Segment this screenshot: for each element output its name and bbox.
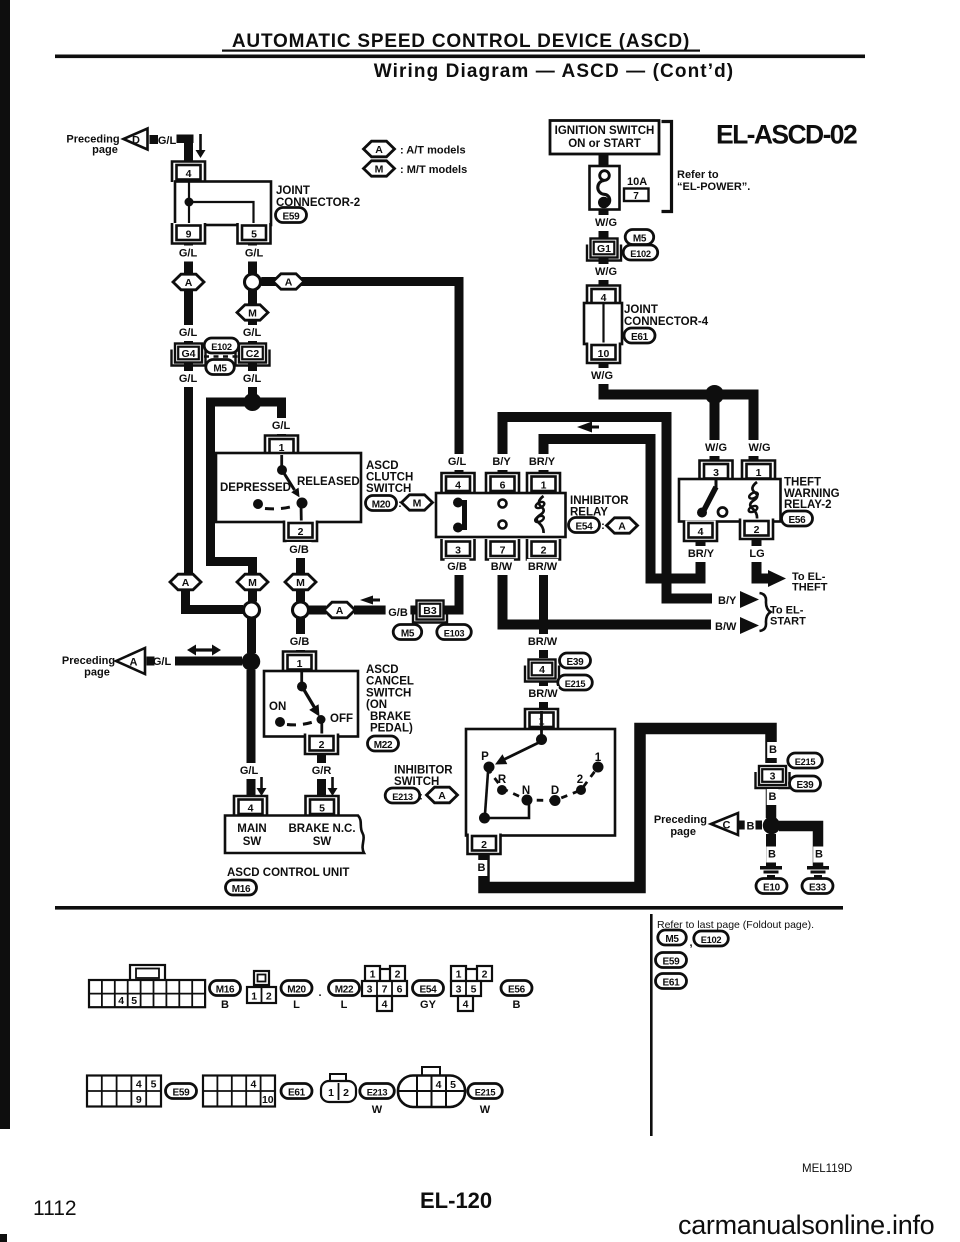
svg-text:JOINT: JOINT xyxy=(624,304,658,316)
svg-text:B: B xyxy=(769,791,777,803)
svg-text:carmanualsonline.info: carmanualsonline.info xyxy=(678,1210,934,1240)
svg-text:E213: E213 xyxy=(367,1088,388,1098)
svg-text:Wiring Diagram — ASCD — (Cont’: Wiring Diagram — ASCD — (Cont’d) xyxy=(374,61,734,82)
svg-text:CONNECTOR-4: CONNECTOR-4 xyxy=(624,316,709,328)
svg-text:E213: E213 xyxy=(392,792,413,802)
svg-text:AUTOMATIC SPEED CONTROL DEVICE: AUTOMATIC SPEED CONTROL DEVICE (ASCD) xyxy=(232,31,690,52)
svg-text:page: page xyxy=(84,667,110,679)
svg-text:: M/T models: : M/T models xyxy=(400,164,467,176)
svg-text:page: page xyxy=(92,144,118,156)
svg-text:4: 4 xyxy=(463,999,469,1011)
svg-text:4: 4 xyxy=(455,480,461,492)
svg-text:M: M xyxy=(296,577,305,589)
svg-text:THEFT: THEFT xyxy=(784,477,821,489)
svg-text:Refer to: Refer to xyxy=(677,169,719,181)
svg-text:D: D xyxy=(551,785,559,797)
svg-text:BR/Y: BR/Y xyxy=(529,456,556,468)
svg-text:M: M xyxy=(375,163,384,175)
svg-text:A: A xyxy=(438,790,446,802)
svg-text:W/G: W/G xyxy=(595,217,617,229)
svg-text:6: 6 xyxy=(500,480,506,492)
svg-text:SW: SW xyxy=(313,836,332,848)
svg-text:W/G: W/G xyxy=(595,266,617,278)
svg-text:M5: M5 xyxy=(401,629,415,640)
svg-text::: : xyxy=(601,520,605,532)
svg-text:E59: E59 xyxy=(663,957,681,968)
svg-text:1: 1 xyxy=(456,969,462,981)
svg-text:E59: E59 xyxy=(283,212,301,223)
svg-text:2: 2 xyxy=(577,774,583,786)
svg-text:JOINT: JOINT xyxy=(276,185,310,197)
svg-text:BRAKE N.C.: BRAKE N.C. xyxy=(288,823,355,835)
svg-text:4: 4 xyxy=(186,168,192,180)
svg-text:G/L: G/L xyxy=(243,373,262,385)
svg-text:G/L: G/L xyxy=(179,373,198,385)
svg-text:RELAY-2: RELAY-2 xyxy=(784,499,832,511)
svg-text:(ON: (ON xyxy=(366,699,387,711)
svg-text:Preceding: Preceding xyxy=(654,814,707,826)
svg-text:PEDAL): PEDAL) xyxy=(370,723,413,735)
svg-text:5: 5 xyxy=(319,803,325,815)
svg-text:E102: E102 xyxy=(701,935,722,945)
svg-text:G/L: G/L xyxy=(448,456,467,468)
svg-text:G/L: G/L xyxy=(245,248,264,260)
svg-text:7: 7 xyxy=(500,545,506,557)
svg-text:E56: E56 xyxy=(789,515,807,526)
svg-text:BR/W: BR/W xyxy=(528,561,558,573)
svg-text:9: 9 xyxy=(136,1094,142,1106)
svg-text:page: page xyxy=(670,826,696,838)
svg-text:5: 5 xyxy=(471,984,477,996)
svg-text:G4: G4 xyxy=(181,348,195,360)
svg-text:M22: M22 xyxy=(374,740,393,751)
svg-text:E215: E215 xyxy=(475,1088,496,1098)
svg-text:4: 4 xyxy=(436,1079,442,1091)
svg-text:B/W: B/W xyxy=(715,621,737,633)
svg-text:RELEASED: RELEASED xyxy=(297,476,360,488)
svg-text:E56: E56 xyxy=(508,985,526,996)
svg-text:7: 7 xyxy=(382,984,388,996)
svg-text:2: 2 xyxy=(266,991,272,1003)
svg-text:,: , xyxy=(689,937,692,949)
svg-text:ON or START: ON or START xyxy=(568,138,641,150)
svg-text:G/B: G/B xyxy=(289,544,309,556)
svg-text:B: B xyxy=(221,999,229,1011)
svg-text:10: 10 xyxy=(262,1094,274,1106)
svg-text:A: A xyxy=(285,276,293,288)
svg-text:G/B: G/B xyxy=(290,636,310,648)
svg-text:ON: ON xyxy=(269,701,286,713)
svg-text:CLUTCH: CLUTCH xyxy=(366,472,413,484)
svg-text:1112: 1112 xyxy=(33,1197,77,1220)
svg-text:SW: SW xyxy=(243,836,262,848)
svg-text:G/B: G/B xyxy=(447,561,467,573)
svg-text:E39: E39 xyxy=(567,657,585,668)
svg-text:10A: 10A xyxy=(627,176,647,188)
svg-text:E103: E103 xyxy=(444,629,465,639)
svg-text:E10: E10 xyxy=(763,883,781,894)
svg-text:4: 4 xyxy=(698,526,704,538)
svg-text:M5: M5 xyxy=(665,934,679,945)
svg-text:MEL119D: MEL119D xyxy=(802,1163,852,1175)
svg-text:5: 5 xyxy=(151,1079,157,1091)
svg-text:E59: E59 xyxy=(173,1088,191,1099)
svg-text:3: 3 xyxy=(456,984,462,996)
svg-text:3: 3 xyxy=(713,467,719,479)
svg-text:M22: M22 xyxy=(335,985,354,996)
svg-text:LG: LG xyxy=(749,548,764,560)
svg-text:E61: E61 xyxy=(631,332,649,343)
svg-text:E54: E54 xyxy=(420,985,438,996)
svg-text:1: 1 xyxy=(756,467,762,479)
svg-text:1: 1 xyxy=(595,752,602,764)
svg-text:1: 1 xyxy=(370,969,376,981)
svg-text:G/L: G/L xyxy=(243,327,262,339)
svg-text:M20: M20 xyxy=(287,985,306,996)
svg-text:M5: M5 xyxy=(633,234,647,245)
svg-text:EL-ASCD-02: EL-ASCD-02 xyxy=(716,120,857,150)
svg-text:P: P xyxy=(481,751,489,763)
svg-text:G/L: G/L xyxy=(179,327,198,339)
svg-text:W/G: W/G xyxy=(705,442,727,454)
svg-text:E215: E215 xyxy=(565,679,586,689)
svg-text:7: 7 xyxy=(633,191,639,202)
svg-text:1: 1 xyxy=(541,480,547,492)
svg-text:2: 2 xyxy=(298,526,304,538)
svg-text:A: A xyxy=(182,577,190,589)
svg-text:START: START xyxy=(770,616,806,628)
svg-text:5: 5 xyxy=(450,1079,456,1091)
svg-text:10: 10 xyxy=(598,348,610,360)
svg-text:G/B: G/B xyxy=(388,607,408,619)
svg-text:BR/W: BR/W xyxy=(528,636,558,648)
svg-text:E215: E215 xyxy=(795,757,816,767)
svg-text:2: 2 xyxy=(541,545,547,557)
svg-text:G/L: G/L xyxy=(158,135,177,147)
svg-text:3: 3 xyxy=(770,771,776,783)
svg-text:: A/T models: : A/T models xyxy=(400,145,466,157)
svg-text:4: 4 xyxy=(248,803,254,815)
svg-text:SWITCH: SWITCH xyxy=(394,776,439,788)
svg-text:BR/W: BR/W xyxy=(528,688,558,700)
svg-text:G/R: G/R xyxy=(312,765,332,777)
svg-text:B: B xyxy=(769,744,777,756)
svg-text:4: 4 xyxy=(118,995,124,1007)
svg-text:4: 4 xyxy=(539,664,545,676)
svg-text:M16: M16 xyxy=(216,985,235,996)
svg-text:Preceding: Preceding xyxy=(62,655,115,667)
svg-text:2: 2 xyxy=(481,839,487,851)
svg-text:E102: E102 xyxy=(630,249,651,259)
svg-text:INHIBITOR: INHIBITOR xyxy=(394,765,453,777)
svg-text:B/W: B/W xyxy=(491,561,513,573)
svg-text:1: 1 xyxy=(251,991,257,1003)
svg-text:L: L xyxy=(341,999,348,1011)
svg-text:BR/Y: BR/Y xyxy=(688,548,715,560)
svg-text:E61: E61 xyxy=(288,1088,306,1099)
svg-text:4: 4 xyxy=(382,999,388,1011)
svg-text:5: 5 xyxy=(131,995,137,1007)
svg-text:SWITCH: SWITCH xyxy=(366,687,411,699)
svg-text:IGNITION SWITCH: IGNITION SWITCH xyxy=(555,125,655,137)
svg-text:1: 1 xyxy=(328,1087,334,1099)
svg-text:DEPRESSED: DEPRESSED xyxy=(220,482,291,494)
svg-text:OFF: OFF xyxy=(330,713,353,725)
svg-text:A: A xyxy=(130,657,138,669)
svg-text:2: 2 xyxy=(343,1087,349,1099)
svg-text:G/L: G/L xyxy=(272,420,291,432)
svg-text:3: 3 xyxy=(367,984,373,996)
svg-text:E61: E61 xyxy=(663,978,681,989)
svg-text:A: A xyxy=(336,605,344,617)
svg-text:4: 4 xyxy=(136,1079,142,1091)
svg-text:BRAKE: BRAKE xyxy=(370,711,411,723)
svg-text:SWITCH: SWITCH xyxy=(366,483,411,495)
svg-text:ASCD: ASCD xyxy=(366,664,399,676)
svg-text::: : xyxy=(419,791,423,803)
svg-text:2: 2 xyxy=(482,969,488,981)
svg-text:ASCD: ASCD xyxy=(366,460,399,472)
svg-text:D: D xyxy=(132,135,140,147)
svg-text:ASCD CONTROL UNIT: ASCD CONTROL UNIT xyxy=(227,867,349,879)
svg-text:E39: E39 xyxy=(797,780,815,791)
svg-text:INHIBITOR: INHIBITOR xyxy=(570,495,629,507)
svg-text:E33: E33 xyxy=(809,883,827,894)
svg-text:M20: M20 xyxy=(372,500,391,511)
svg-text:W/G: W/G xyxy=(749,442,771,454)
svg-text:N: N xyxy=(522,785,530,797)
svg-text:A: A xyxy=(618,520,626,532)
svg-text:G/L: G/L xyxy=(240,765,259,777)
svg-text:C2: C2 xyxy=(246,348,260,360)
svg-text:M: M xyxy=(248,577,257,589)
svg-text:“EL-POWER”.: “EL-POWER”. xyxy=(677,181,750,193)
svg-text:B/Y: B/Y xyxy=(718,595,737,607)
svg-text:W: W xyxy=(372,1104,383,1116)
svg-text:2: 2 xyxy=(395,969,401,981)
svg-text:R: R xyxy=(498,774,507,786)
svg-text:W: W xyxy=(480,1104,491,1116)
svg-text:B: B xyxy=(478,862,486,874)
svg-text:.: . xyxy=(318,987,321,999)
svg-text:M: M xyxy=(248,307,257,319)
svg-text:G1: G1 xyxy=(597,243,611,255)
svg-text:A: A xyxy=(185,277,193,289)
svg-text:E102: E102 xyxy=(211,342,232,352)
svg-text:THEFT: THEFT xyxy=(792,582,828,594)
svg-text:5: 5 xyxy=(251,229,257,241)
svg-text:W/G: W/G xyxy=(591,370,613,382)
svg-text:E54: E54 xyxy=(576,522,594,533)
svg-text:B: B xyxy=(768,849,776,861)
svg-text:6: 6 xyxy=(397,984,403,996)
svg-text:B: B xyxy=(513,999,521,1011)
svg-text:EL-120: EL-120 xyxy=(420,1188,492,1213)
svg-text:B: B xyxy=(747,821,755,833)
svg-text:4: 4 xyxy=(250,1079,256,1091)
svg-text:2: 2 xyxy=(319,739,325,751)
svg-text:C: C xyxy=(723,820,731,832)
svg-text:3: 3 xyxy=(455,545,461,557)
svg-text:B3: B3 xyxy=(423,605,437,617)
svg-text:CANCEL: CANCEL xyxy=(366,676,414,688)
svg-text:1: 1 xyxy=(297,658,303,670)
svg-text:A: A xyxy=(375,144,383,156)
svg-text:L: L xyxy=(293,999,300,1011)
svg-text:G/L: G/L xyxy=(153,656,172,668)
svg-text:M16: M16 xyxy=(232,884,251,895)
svg-text:M: M xyxy=(413,497,422,509)
svg-text:2: 2 xyxy=(754,524,760,536)
svg-text:9: 9 xyxy=(186,229,192,241)
svg-text:G/L: G/L xyxy=(179,248,198,260)
svg-text:M5: M5 xyxy=(213,364,227,375)
svg-text:GY: GY xyxy=(420,999,437,1011)
svg-text:B/Y: B/Y xyxy=(492,456,511,468)
svg-text:MAIN: MAIN xyxy=(237,823,266,835)
svg-text:B: B xyxy=(815,849,823,861)
